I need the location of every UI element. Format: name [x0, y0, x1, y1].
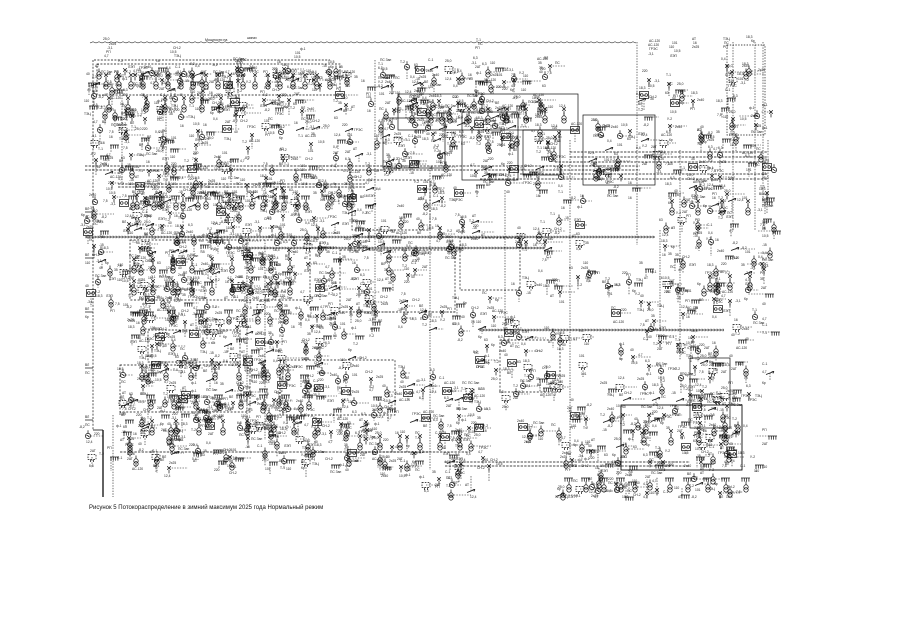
svg-text:110: 110	[476, 320, 481, 324]
transformer T119	[316, 425, 320, 436]
svg-text:Т-2: Т-2	[261, 188, 266, 192]
svg-text:4,7: 4,7	[643, 495, 648, 499]
svg-text:101: 101	[245, 199, 251, 203]
transformer T52	[602, 482, 606, 493]
node N73 feeder comb	[721, 108, 730, 112]
breaker Q47	[378, 434, 382, 441]
svg-text:40: 40	[382, 384, 386, 388]
svg-text:СН-2: СН-2	[412, 298, 420, 302]
wire w140	[473, 104, 475, 111]
node N74 feeder comb	[727, 98, 736, 102]
svg-text:63: 63	[440, 189, 444, 193]
svg-text:12,4: 12,4	[662, 233, 669, 237]
svg-text:Кр: Кр	[119, 127, 123, 131]
svg-text:ПС Зап: ПС Зап	[445, 256, 456, 260]
wire w110	[212, 106, 232, 108]
svg-text:2x25: 2x25	[341, 305, 348, 309]
breaker Q36	[219, 96, 223, 103]
svg-text:220: 220	[361, 245, 367, 249]
svg-text:63: 63	[627, 137, 631, 141]
breaker Q155	[628, 129, 632, 136]
breaker Q166	[488, 174, 492, 181]
svg-text:40: 40	[239, 403, 243, 407]
svg-text:12,4: 12,4	[420, 308, 427, 312]
svg-text:10,5: 10,5	[117, 367, 124, 371]
flow arrow A3	[484, 167, 492, 170]
svg-text:220: 220	[502, 87, 508, 91]
flow arrow A39	[482, 174, 490, 177]
svg-text:2x40: 2x40	[397, 204, 404, 208]
wire w216	[704, 134, 712, 136]
transformer T129	[708, 280, 712, 291]
svg-text:Т-2: Т-2	[172, 198, 177, 202]
transformer T108	[239, 399, 243, 410]
svg-text:2АТ: 2АТ	[422, 265, 428, 269]
svg-text:Т-2: Т-2	[126, 70, 131, 74]
transformer T118	[292, 425, 296, 436]
wire w98	[125, 111, 127, 118]
svg-text:ВЛ: ВЛ	[513, 148, 517, 152]
flow arrow A41	[163, 200, 171, 203]
svg-text:СН-2: СН-2	[302, 338, 310, 342]
svg-text:4,7: 4,7	[240, 159, 245, 163]
svg-text:ПС Зап: ПС Зап	[468, 381, 479, 385]
svg-text:40: 40	[138, 442, 142, 446]
svg-text:35: 35	[639, 261, 643, 265]
svg-text:63: 63	[489, 110, 493, 114]
svg-text:ВЛ: ВЛ	[423, 424, 427, 428]
svg-text:2x40: 2x40	[707, 289, 714, 293]
breaker Q95	[720, 199, 724, 206]
svg-text:40: 40	[729, 354, 733, 358]
svg-text:110: 110	[265, 426, 270, 430]
svg-text:0,4: 0,4	[558, 184, 563, 188]
svg-text:2x40: 2x40	[203, 410, 210, 414]
flow arrow A15	[286, 77, 294, 80]
svg-text:АС-120: АС-120	[441, 173, 452, 177]
wire w122	[296, 99, 315, 101]
svg-text:2x25: 2x25	[711, 178, 718, 182]
svg-text:220: 220	[281, 364, 287, 368]
node N57 feeder comb	[126, 114, 135, 118]
svg-text:4,7: 4,7	[581, 411, 586, 415]
wire w202	[506, 136, 522, 138]
svg-text:18,3: 18,3	[235, 233, 242, 237]
svg-text:-8,2: -8,2	[214, 278, 220, 282]
svg-text:40: 40	[675, 407, 679, 411]
svg-text:-8,2: -8,2	[264, 108, 270, 112]
svg-text:Рисунок 5 Потокораспределени: Рисунок 5 Потокораспределение в зимний м…	[89, 504, 323, 511]
svg-text:Т-2: Т-2	[702, 385, 707, 389]
svg-text:ЛЭП: ЛЭП	[368, 194, 376, 198]
load H11	[458, 105, 466, 113]
svg-text:ф.1: ф.1	[461, 418, 467, 422]
svg-text:ГРЭС: ГРЭС	[499, 311, 508, 315]
svg-text:У-2: У-2	[556, 332, 561, 336]
breaker Q178	[282, 189, 286, 196]
wire w179	[316, 127, 329, 129]
wire w270	[598, 171, 600, 181]
wire w245	[358, 155, 360, 162]
svg-text:СН-2: СН-2	[240, 119, 248, 123]
svg-text:ГРЭС: ГРЭС	[677, 351, 686, 355]
svg-text:6,3: 6,3	[92, 89, 97, 93]
svg-text:ГРЭС: ГРЭС	[294, 365, 303, 369]
generator G40	[119, 164, 124, 172]
generator G47	[771, 164, 776, 172]
svg-text:СН-2: СН-2	[312, 119, 320, 123]
svg-text:РП: РП	[256, 415, 261, 419]
transformer T31	[163, 102, 167, 113]
svg-text:12,4: 12,4	[459, 458, 466, 462]
svg-text:101: 101	[367, 287, 373, 291]
svg-text:ЛЭП: ЛЭП	[327, 399, 335, 403]
svg-text:220: 220	[540, 67, 546, 71]
svg-text:СН-2: СН-2	[305, 157, 313, 161]
transformer T136	[115, 72, 119, 83]
svg-text:16: 16	[595, 466, 599, 470]
svg-text:Т-1: Т-1	[199, 268, 204, 272]
wire w42	[241, 69, 256, 71]
wire w297	[192, 190, 194, 201]
transformer T72	[269, 263, 273, 274]
svg-text:0,4: 0,4	[305, 221, 310, 225]
svg-text:16: 16	[628, 181, 632, 185]
wire w46	[237, 67, 254, 69]
svg-text:СН-2: СН-2	[122, 276, 130, 280]
transformer T49	[458, 440, 462, 451]
svg-text:40: 40	[386, 455, 390, 459]
wire w172	[207, 131, 222, 133]
svg-text:220: 220	[507, 161, 513, 165]
transformer T82	[288, 285, 292, 296]
node N35 feeder comb	[683, 478, 692, 482]
svg-text:4,7: 4,7	[193, 306, 198, 310]
svg-text:ВЛ: ВЛ	[85, 415, 89, 419]
node N37 feeder comb	[721, 478, 730, 482]
svg-text:РП: РП	[680, 436, 685, 440]
svg-text:Т-2: Т-2	[278, 451, 283, 455]
svg-text:-15: -15	[599, 464, 604, 468]
svg-text:7,5: 7,5	[640, 323, 645, 327]
svg-text:40: 40	[416, 217, 420, 221]
svg-text:АС-120: АС-120	[85, 215, 96, 219]
node N62 feeder comb	[275, 108, 284, 112]
svg-text:ПС: ПС	[209, 255, 214, 259]
svg-text:0,4: 0,4	[195, 64, 200, 68]
svg-text:7,5: 7,5	[201, 325, 206, 329]
svg-text:220: 220	[318, 378, 324, 382]
svg-text:2АТ: 2АТ	[294, 92, 300, 96]
svg-text:0,4: 0,4	[636, 92, 641, 96]
svg-text:16: 16	[133, 432, 137, 436]
svg-text:АТ: АТ	[510, 344, 514, 348]
svg-text:АТ: АТ	[645, 319, 649, 323]
transformer T59	[239, 200, 243, 211]
svg-text:Т-2: Т-2	[536, 150, 541, 154]
wire w115	[236, 107, 254, 109]
svg-text:-3,1: -3,1	[685, 403, 691, 407]
wire w283	[748, 163, 750, 177]
svg-text:2АТ: 2АТ	[159, 87, 165, 91]
svg-text:ВЛ: ВЛ	[233, 114, 237, 118]
svg-text:10,5: 10,5	[311, 176, 318, 180]
breaker Q174	[199, 181, 203, 188]
wire w60	[346, 75, 348, 85]
svg-text:ф.1: ф.1	[749, 106, 755, 110]
wire w296	[192, 205, 200, 207]
svg-text:ВЛ: ВЛ	[687, 472, 691, 476]
svg-text:63: 63	[614, 152, 618, 156]
svg-text:16: 16	[109, 135, 113, 139]
load H7	[729, 78, 737, 86]
svg-text:2x25: 2x25	[376, 375, 383, 379]
flow arrow A34	[641, 139, 649, 142]
svg-text:2x40: 2x40	[675, 125, 682, 129]
wire w64	[385, 86, 394, 88]
svg-text:-15: -15	[262, 167, 267, 171]
svg-text:ЛЭП: ЛЭП	[405, 156, 413, 160]
transformer T40	[505, 113, 509, 124]
svg-text:4,7: 4,7	[443, 124, 448, 128]
svg-text:ВЛ: ВЛ	[301, 460, 305, 464]
svg-text:ЛЭП: ЛЭП	[443, 452, 451, 456]
svg-text:АТ: АТ	[550, 294, 554, 298]
svg-text:35: 35	[477, 416, 481, 420]
svg-text:18,3: 18,3	[738, 451, 745, 455]
svg-text:2АТ: 2АТ	[127, 457, 133, 461]
svg-text:ф.1: ф.1	[619, 342, 625, 346]
svg-text:220: 220	[172, 412, 178, 416]
svg-text:6,3: 6,3	[708, 145, 713, 149]
svg-text:2x40: 2x40	[116, 91, 123, 95]
svg-text:ВЛ: ВЛ	[724, 414, 728, 418]
svg-text:ПС Зап: ПС Зап	[731, 403, 742, 407]
transformer T109	[262, 399, 266, 410]
transformer T91	[142, 314, 146, 325]
substation cell U36	[136, 183, 145, 190]
svg-text:-8,2: -8,2	[90, 152, 96, 156]
svg-text:16: 16	[337, 386, 341, 390]
svg-text:АС-120: АС-120	[396, 231, 407, 235]
transformer T143	[345, 75, 349, 86]
svg-text:СН-2: СН-2	[519, 110, 527, 114]
svg-text:40: 40	[168, 221, 172, 225]
generator G24	[172, 93, 177, 101]
svg-text:2АТ: 2АТ	[657, 347, 663, 351]
svg-text:2АТ: 2АТ	[645, 475, 651, 479]
transformer T186	[348, 172, 352, 183]
svg-text:-3,1: -3,1	[420, 378, 426, 382]
svg-text:-8,2: -8,2	[475, 108, 481, 112]
svg-text:Т-2: Т-2	[191, 428, 196, 432]
svg-text:6,3: 6,3	[237, 421, 242, 425]
breaker Q29	[328, 73, 332, 80]
svg-text:110: 110	[544, 326, 549, 330]
svg-text:ВЛ: ВЛ	[85, 207, 89, 211]
load H4	[307, 75, 315, 83]
svg-text:АС-120: АС-120	[613, 320, 624, 324]
svg-text:-15: -15	[725, 436, 730, 440]
breaker Q144	[194, 143, 198, 150]
svg-text:ВЛ: ВЛ	[588, 477, 592, 481]
svg-text:40: 40	[400, 380, 404, 384]
svg-text:ПС: ПС	[85, 423, 90, 427]
substation cell U29	[571, 127, 580, 134]
svg-text:220: 220	[193, 151, 199, 155]
svg-text:Т-2: Т-2	[141, 111, 146, 115]
svg-text:РП: РП	[626, 273, 631, 277]
svg-text:101: 101	[347, 133, 353, 137]
svg-text:16: 16	[270, 195, 274, 199]
svg-text:4,7: 4,7	[325, 265, 330, 269]
svg-text:У-2: У-2	[693, 221, 698, 225]
svg-text:12,4: 12,4	[164, 474, 171, 478]
transformer T56	[174, 200, 178, 211]
svg-text:АС-120: АС-120	[161, 231, 172, 235]
feeder line w9	[429, 170, 431, 470]
svg-text:25,0: 25,0	[729, 110, 736, 114]
svg-text:АТ: АТ	[606, 181, 610, 185]
wire w224	[109, 172, 120, 174]
svg-text:ТЭЦ: ТЭЦ	[337, 195, 344, 199]
generator G12	[177, 75, 182, 83]
svg-text:220: 220	[728, 177, 734, 181]
svg-text:АС-120: АС-120	[212, 331, 223, 335]
left border w2	[102, 430, 104, 497]
svg-text:101: 101	[191, 358, 197, 362]
svg-text:35: 35	[136, 241, 140, 245]
svg-text:-3,1: -3,1	[264, 74, 270, 78]
transformer T80	[249, 285, 253, 296]
svg-text:С-1: С-1	[439, 376, 444, 380]
wire w111	[234, 102, 236, 116]
svg-text:Кр: Кр	[577, 415, 581, 419]
svg-text:Т-1: Т-1	[503, 327, 508, 331]
svg-text:12,4: 12,4	[618, 376, 625, 380]
svg-text:РП: РП	[110, 309, 115, 313]
transformer T197	[160, 198, 164, 209]
svg-text:0,4: 0,4	[636, 146, 641, 150]
transformer T166	[680, 91, 684, 102]
svg-text:РП: РП	[385, 261, 390, 265]
svg-text:ГРЭС: ГРЭС	[287, 384, 296, 388]
svg-text:220: 220	[621, 308, 627, 312]
svg-text:ПС: ПС	[756, 147, 761, 151]
svg-text:СН-2: СН-2	[183, 188, 191, 192]
svg-text:-3,1: -3,1	[182, 329, 188, 333]
svg-text:Т-2: Т-2	[242, 140, 247, 144]
svg-text:63: 63	[557, 139, 561, 143]
svg-text:220: 220	[511, 136, 517, 140]
flow arrow A35	[105, 172, 113, 175]
svg-text:ПС: ПС	[166, 205, 171, 209]
svg-text:АС-120: АС-120	[552, 380, 563, 384]
svg-text:7,5: 7,5	[447, 424, 452, 428]
svg-text:ПС Зап: ПС Зап	[228, 176, 239, 180]
transformer T54	[131, 200, 135, 211]
svg-text:16: 16	[686, 315, 690, 319]
wire w226	[126, 165, 143, 167]
svg-text:СН-2: СН-2	[223, 448, 231, 452]
transformer T68	[190, 263, 194, 274]
svg-text:110: 110	[170, 155, 175, 159]
node N43 feeder comb	[215, 73, 224, 77]
wire w209	[598, 126, 612, 128]
svg-text:ВЛ: ВЛ	[183, 271, 187, 275]
svg-text:ТЭЦ: ТЭЦ	[342, 211, 349, 215]
wire w70	[420, 69, 433, 71]
svg-text:-15: -15	[762, 243, 767, 247]
svg-text:Т-1: Т-1	[762, 331, 767, 335]
transformer T84	[158, 199, 162, 210]
svg-text:ПС: ПС	[337, 407, 342, 411]
svg-text:ПС Зап: ПС Зап	[762, 204, 773, 208]
svg-text:2АТ: 2АТ	[129, 276, 135, 280]
svg-text:101: 101	[306, 69, 312, 73]
svg-text:-8,2: -8,2	[275, 304, 281, 308]
load H23	[384, 167, 392, 175]
node N48 feeder comb	[367, 87, 376, 91]
110kV busbar II B17 hatched busbar	[225, 247, 545, 249]
transformer T86	[204, 199, 208, 210]
breaker Q74	[227, 193, 231, 200]
wire w57	[311, 76, 320, 78]
wire w138	[433, 104, 443, 106]
svg-text:Кр: Кр	[105, 261, 109, 265]
svg-text:ф.1: ф.1	[476, 71, 482, 75]
generator G35	[278, 126, 283, 134]
transformer T116	[245, 425, 249, 436]
node N30 feeder comb	[236, 395, 245, 399]
svg-text:25,0: 25,0	[677, 82, 684, 86]
svg-text:-3,1: -3,1	[180, 313, 186, 317]
svg-text:ПС: ПС	[277, 103, 282, 107]
svg-text:АТ: АТ	[192, 375, 196, 379]
svg-text:110: 110	[240, 178, 245, 182]
generator G43	[396, 160, 401, 168]
svg-text:12,4: 12,4	[334, 133, 341, 137]
svg-text:ВЛ: ВЛ	[378, 319, 382, 323]
wire w148	[537, 111, 539, 117]
svg-text:СН-2: СН-2	[524, 164, 532, 168]
node N24 feeder comb	[253, 310, 262, 314]
svg-text:СН-2: СН-2	[380, 295, 388, 299]
svg-text:2x25: 2x25	[692, 45, 699, 49]
node N107 feeder comb	[156, 197, 165, 201]
svg-text:4,7: 4,7	[157, 361, 162, 365]
svg-text:220: 220	[342, 123, 348, 127]
svg-text:ПС Зап: ПС Зап	[433, 414, 444, 418]
svg-text:Т-1: Т-1	[666, 73, 671, 77]
transformer T94	[227, 314, 231, 325]
svg-text:СН-2: СН-2	[477, 466, 485, 470]
wire w208	[574, 130, 576, 142]
node N23 feeder comb	[224, 310, 233, 314]
svg-text:7,5: 7,5	[308, 414, 313, 418]
svg-text:7,5: 7,5	[410, 151, 415, 155]
svg-text:У-2: У-2	[414, 180, 419, 184]
flow arrow A12	[141, 72, 149, 75]
transformer T183	[270, 165, 274, 176]
svg-text:0,4: 0,4	[712, 315, 717, 319]
svg-text:12,4: 12,4	[475, 125, 482, 129]
svg-text:ф.1: ф.1	[321, 395, 327, 399]
svg-text:ПС: ПС	[482, 291, 487, 295]
svg-text:АС-120: АС-120	[474, 394, 485, 398]
wire w292	[158, 192, 167, 194]
svg-text:110: 110	[583, 261, 588, 265]
